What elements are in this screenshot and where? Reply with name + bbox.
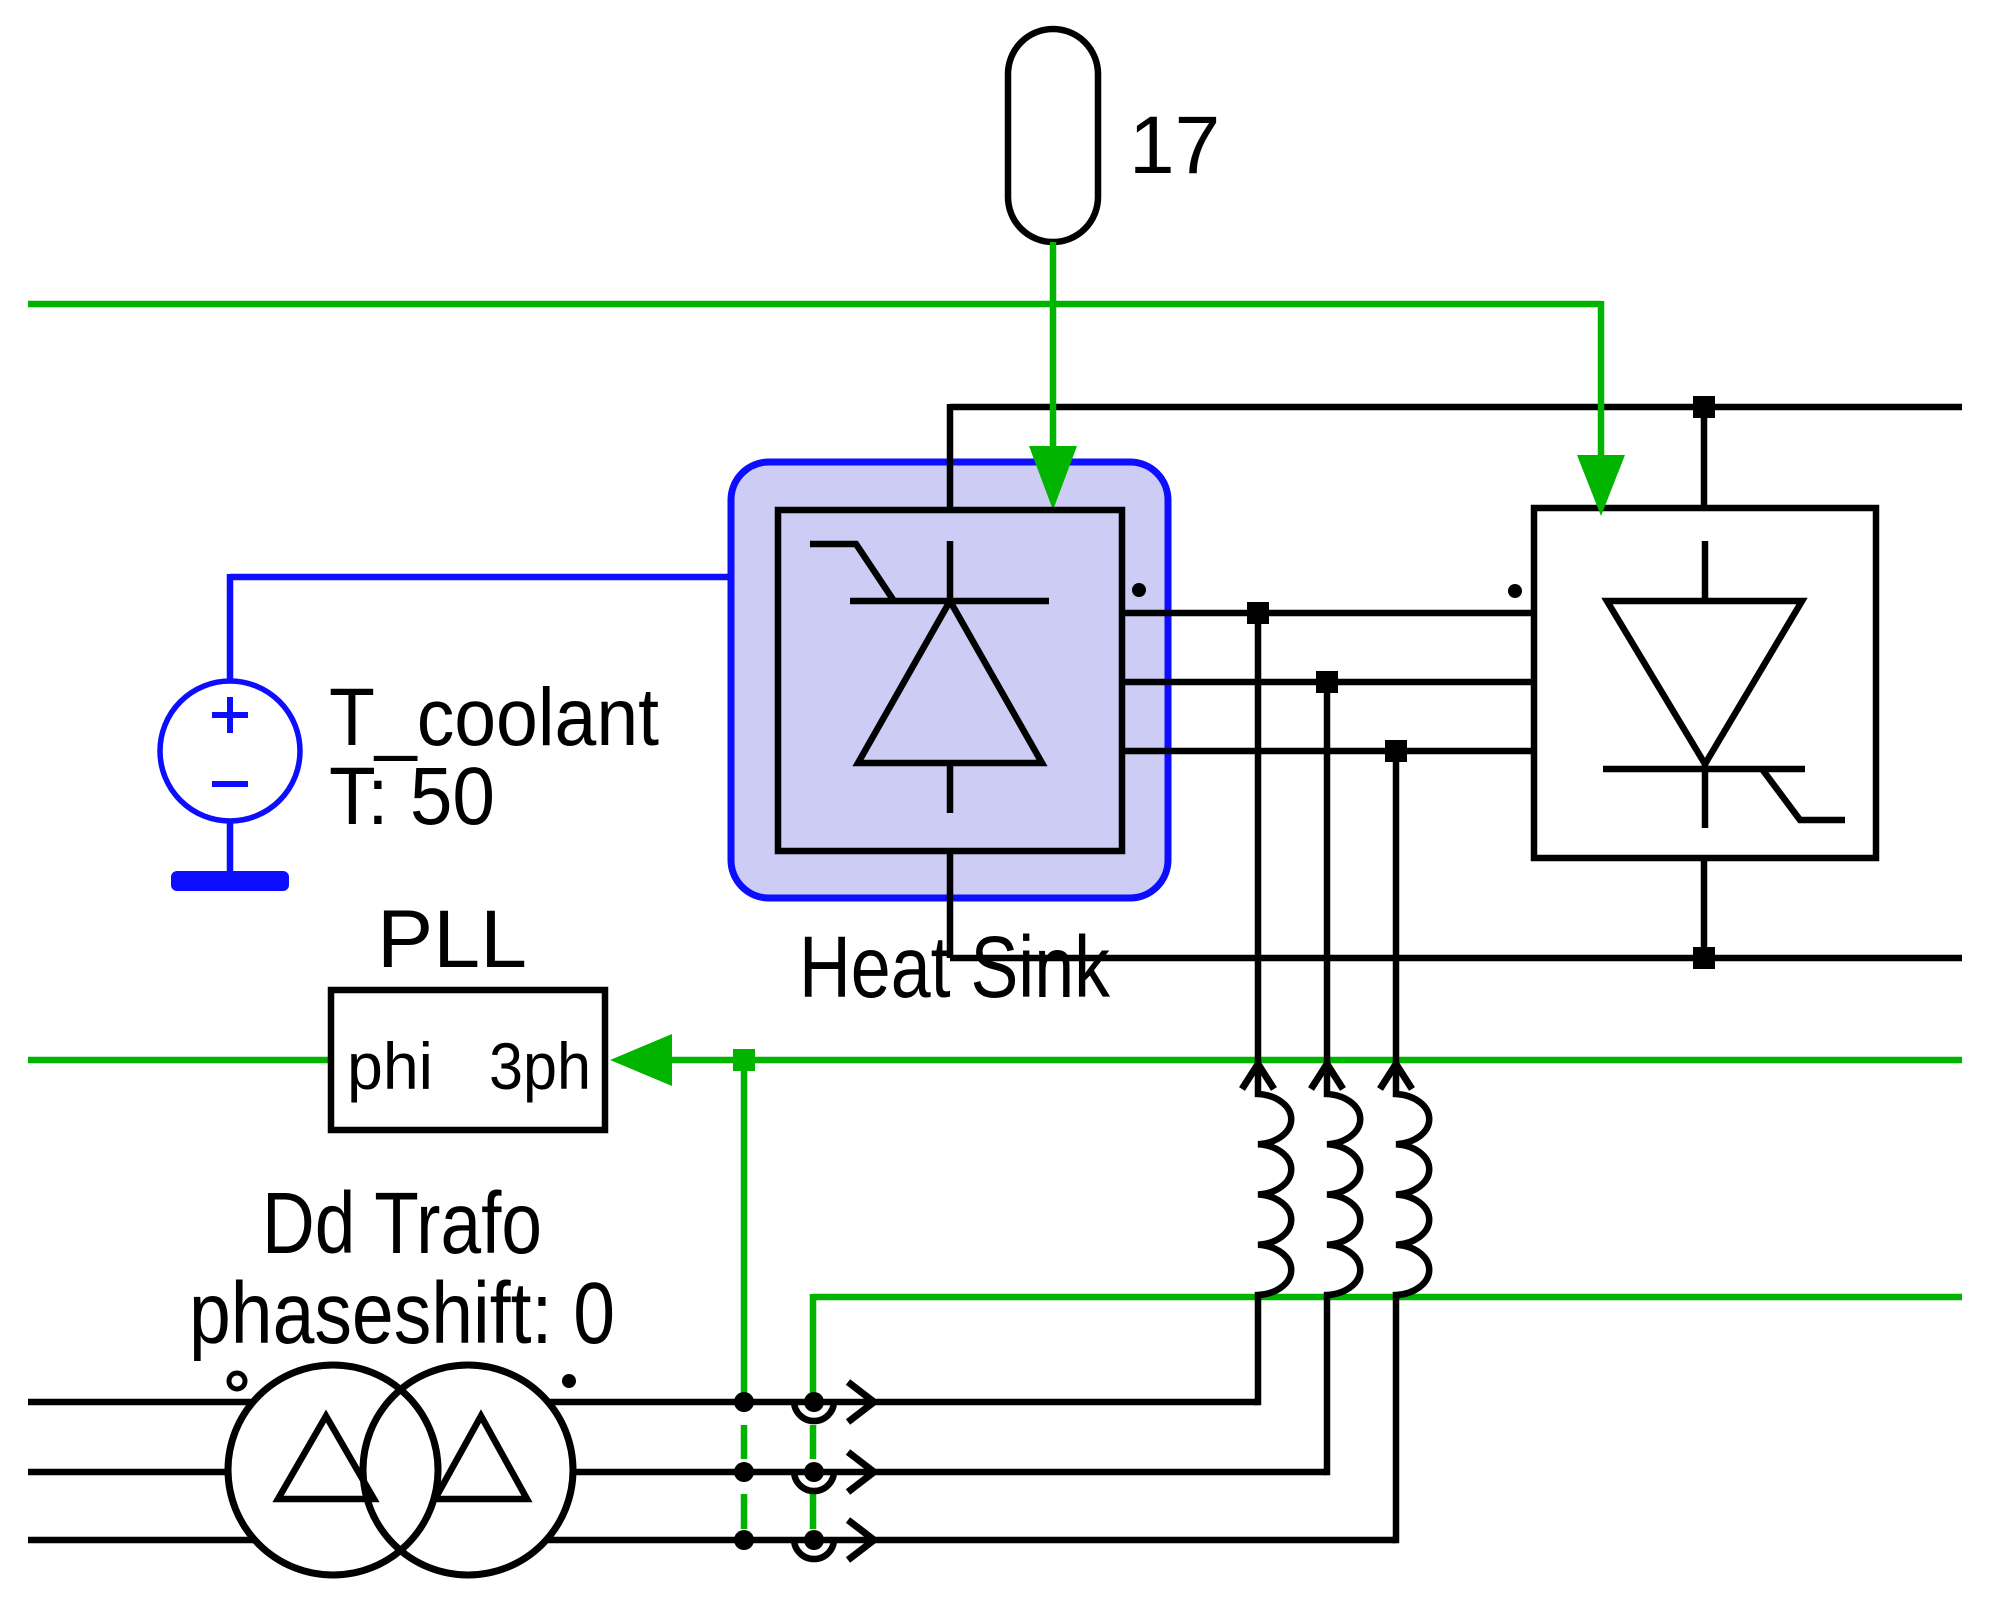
delta symbol secondary <box>435 1416 527 1499</box>
thyristor T1 cathode bar <box>850 598 1049 605</box>
wire: transformer line b <box>28 1469 1327 1476</box>
delta symbol primary <box>278 1416 374 1499</box>
wire: green PLL line right segment <box>668 1057 1962 1064</box>
minus sign <box>212 781 248 787</box>
wire: right block bottom lead <box>1701 858 1708 958</box>
thyristor T2 anode lead <box>1702 541 1709 601</box>
wire: phase pin c <box>1122 748 1534 755</box>
wire: green from tag 17 down to heat sink <box>1050 242 1057 450</box>
current arrow c <box>848 1520 874 1560</box>
thyristor T1 cathode lead <box>947 763 954 813</box>
green junction <box>733 1049 755 1071</box>
current probe c <box>794 1530 834 1559</box>
current arrow riser a <box>1242 1064 1274 1089</box>
junction on top bus <box>1693 396 1715 418</box>
Dd transformer secondary circle <box>363 1365 573 1575</box>
wire: green vertical to current probes <box>810 1294 817 1529</box>
plus sign <box>212 697 248 733</box>
PLL block <box>331 990 605 1130</box>
wire: bottom black bus <box>950 955 1962 962</box>
wire: green drop to right thyristor block <box>1598 301 1605 458</box>
thyristor T1 anode lead <box>947 541 954 601</box>
arrowhead into right thyristor block <box>1577 455 1625 516</box>
svg-text:17: 17 <box>1129 100 1220 191</box>
Dd transformer secondary circle outline <box>363 1365 573 1575</box>
Dd transformer primary circle <box>228 1365 438 1575</box>
svg-text:phaseshift: 0: phaseshift: 0 <box>189 1265 615 1362</box>
junction dot tap a <box>734 1392 754 1412</box>
junction dot tap c <box>734 1530 754 1550</box>
wire: riser b with inductor <box>1323 682 1360 1472</box>
current arrow b <box>848 1452 874 1492</box>
wire: green PLL line left segment <box>28 1057 331 1064</box>
thyristor T1 gate <box>810 544 894 601</box>
wire: heat sink bottom lead <box>947 851 954 958</box>
phase dot right block <box>1508 584 1522 598</box>
thyristor T2 gate <box>1762 769 1845 820</box>
phase dot heat sink <box>1132 583 1146 597</box>
thyristor T2 cathode bar <box>1603 766 1805 773</box>
thyristor T1 box <box>778 510 1122 851</box>
wire: green vertical to transformer taps <box>741 1060 748 1529</box>
current probe b <box>794 1462 834 1491</box>
junction square pin b <box>1316 671 1338 693</box>
thermal ground <box>171 871 289 891</box>
wire: riser c with inductor <box>1392 751 1429 1540</box>
polarity mark secondary <box>562 1374 576 1388</box>
junction square pin c <box>1385 740 1407 762</box>
T_coolant lower lead <box>227 821 234 872</box>
svg-text:Dd Trafo: Dd Trafo <box>262 1175 542 1272</box>
wire: green lower bus <box>813 1294 1962 1301</box>
svg-text:phi: phi <box>347 1029 433 1103</box>
wire: heat sink top lead <box>947 404 954 510</box>
wire: phase pin b <box>1122 679 1534 686</box>
current arrow a <box>848 1382 874 1422</box>
junction dot tap b <box>734 1462 754 1482</box>
wire: riser a with inductor <box>1254 613 1291 1402</box>
T_coolant source wire drop <box>227 574 234 681</box>
wire: green signal bus top horizontal <box>28 301 1601 308</box>
svg-text:T: 50: T: 50 <box>329 751 495 842</box>
thyristor T2 triangle <box>1607 601 1802 764</box>
svg-text:Heat Sink: Heat Sink <box>799 919 1110 1016</box>
wire: transformer line c <box>28 1537 1396 1544</box>
svg-text:T_coolant: T_coolant <box>329 672 659 763</box>
junction on bottom bus <box>1693 947 1715 969</box>
current arrow riser b <box>1311 1064 1343 1089</box>
wire: right block top lead <box>1701 407 1708 508</box>
wire: top black bus <box>950 404 1962 411</box>
junction square pin a <box>1247 602 1269 624</box>
goto tag 17 (capsule) <box>1008 29 1098 242</box>
heat sink (blue rounded subsystem) <box>731 462 1168 898</box>
wire: phase pin a <box>1122 610 1534 617</box>
thyristor T1 triangle <box>858 601 1042 763</box>
thyristor T2 cathode lead <box>1702 764 1709 828</box>
right thyristor block T2 <box>1534 508 1876 858</box>
Dd transformer primary circle outline <box>228 1365 438 1575</box>
wire: transformer line a <box>28 1399 1258 1406</box>
polarity mark primary <box>229 1373 245 1389</box>
current probe a <box>794 1392 834 1421</box>
arrowhead into PLL 3ph <box>610 1034 672 1086</box>
T_coolant source circle <box>160 681 300 821</box>
T_coolant source wire top <box>230 574 731 581</box>
svg-text:3ph: 3ph <box>489 1029 591 1103</box>
arrowhead into heat sink thyristor <box>1029 446 1077 510</box>
current arrow riser c <box>1380 1064 1412 1089</box>
svg-text:PLL: PLL <box>377 894 527 985</box>
